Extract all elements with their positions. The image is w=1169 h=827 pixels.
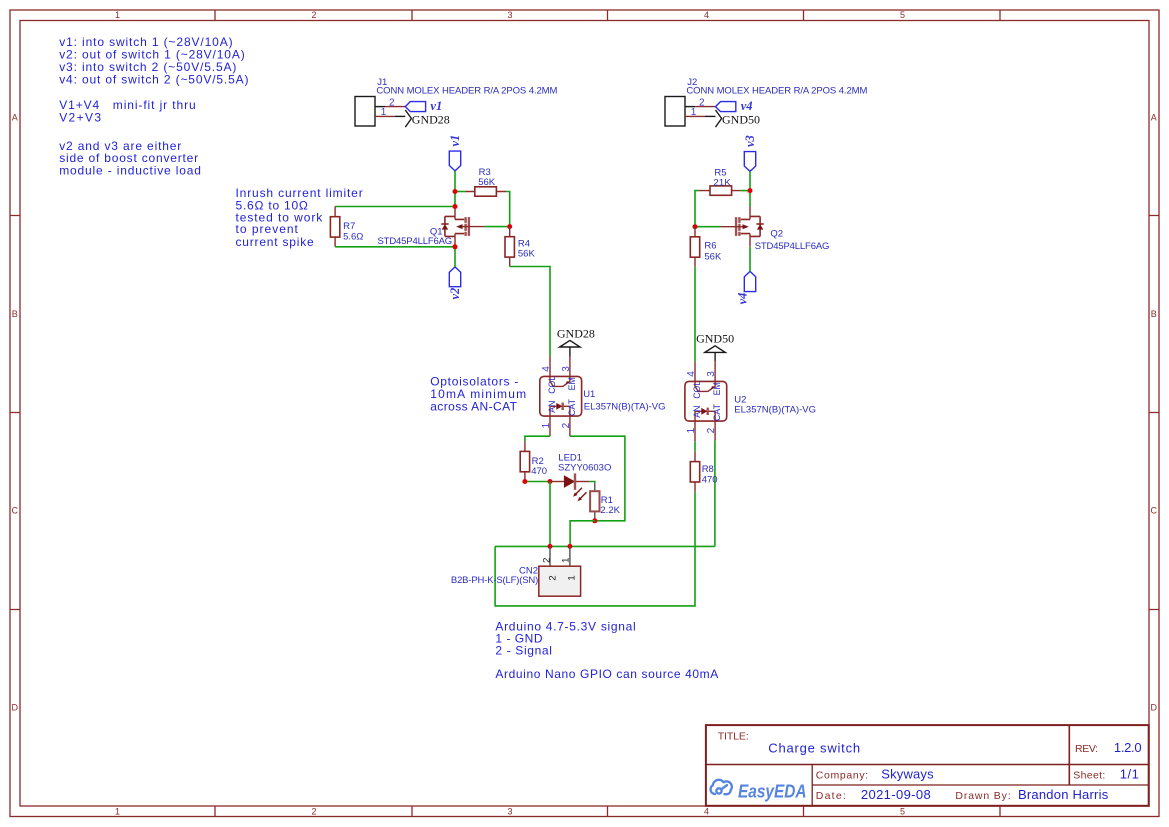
svg-text:56K: 56K: [518, 249, 536, 260]
svg-text:Arduino Nano GPIO can source 4: Arduino Nano GPIO can source 40mA: [495, 667, 718, 681]
wire R5 right lead to node: [741, 190, 750, 192]
svg-text:EM: EM: [712, 382, 722, 395]
svg-text:A: A: [12, 113, 18, 123]
svg-text:EasyEDA: EasyEDA: [738, 781, 807, 801]
U2 phototransistor: [695, 381, 715, 391]
svg-text:4: 4: [541, 366, 552, 372]
Q1 gate pin with arrow: [462, 226, 484, 228]
U1 pin 2: [569, 416, 571, 436]
svg-text:2: 2: [541, 558, 552, 563]
U1 phototransistor: [550, 376, 570, 386]
svg-text:CAT: CAT: [712, 403, 722, 421]
resistor R3: [466, 167, 506, 196]
svg-text:v4: out of switch 2 (~50V/5.5A: v4: out of switch 2 (~50V/5.5A): [59, 72, 248, 86]
wire bottom loop to R8: [495, 492, 695, 606]
svg-text:21K: 21K: [713, 178, 731, 189]
svg-text:4: 4: [704, 10, 709, 20]
wire U2 pin1 to R8 top: [694, 441, 696, 451]
junction CN2 pin2: [548, 544, 553, 549]
svg-text:2: 2: [389, 97, 395, 108]
optoisolator U1 EL357N(B)(TA)-VG: [540, 357, 666, 437]
wire Q2 drain to v4 flag: [749, 247, 751, 272]
U1 pin 3: [569, 357, 571, 377]
wire R4 bottom to U1 pin 4: [510, 267, 550, 357]
Q1 gate bar: [468, 217, 470, 236]
svg-text:1/1: 1/1: [1120, 766, 1139, 781]
svg-text:470: 470: [531, 466, 547, 477]
svg-text:v1: v1: [430, 99, 442, 113]
svg-text:Sheet:: Sheet:: [1073, 769, 1105, 781]
junction R2 bottom: [522, 479, 527, 484]
wire v1 flag to Q1 source node: [454, 171, 456, 207]
LED1 emission arrows: [573, 488, 586, 501]
svg-text:COL: COL: [547, 376, 557, 394]
connector CN2 B2B-PH-K-S(LF)(SN): [451, 546, 581, 596]
svg-text:GND50: GND50: [722, 112, 760, 126]
svg-text:Brandon Harris: Brandon Harris: [1018, 787, 1109, 802]
svg-text:B: B: [12, 309, 18, 319]
svg-text:v3: v3: [743, 135, 757, 147]
svg-text:EL357N(B)(TA)-VG: EL357N(B)(TA)-VG: [584, 401, 666, 412]
svg-text:GND28: GND28: [557, 327, 595, 341]
svg-text:5: 5: [900, 10, 905, 20]
svg-text:2.2K: 2.2K: [600, 505, 620, 516]
U2 pin 1: [694, 421, 696, 441]
svg-text:3: 3: [507, 807, 512, 817]
svg-text:STD45P4LLF6AG: STD45P4LLF6AG: [378, 236, 453, 247]
svg-text:3: 3: [561, 366, 572, 372]
svg-text:A: A: [1151, 113, 1157, 123]
J2 pin 1: [685, 107, 716, 118]
svg-text:1.2.0: 1.2.0: [1114, 740, 1142, 755]
svg-text:5.6Ω: 5.6Ω: [343, 231, 363, 242]
junction CN2 pin1: [567, 544, 572, 549]
U2 pin 3: [714, 361, 716, 381]
connector J1: [355, 77, 557, 126]
wire LED1 cathode to R1 top: [590, 482, 595, 484]
svg-text:56K: 56K: [478, 177, 496, 188]
wire U1 pin2 loop to R1 bottom node: [570, 436, 625, 521]
wire R3 right to Q1 gate node: [506, 192, 510, 227]
svg-text:v4: v4: [741, 99, 753, 113]
ground GND28 (at U1 pin 3): [557, 327, 595, 357]
junction R1 bottom: [592, 518, 597, 523]
svg-text:3: 3: [507, 10, 512, 20]
resistor R7: [330, 207, 363, 247]
junction node v1/R3: [453, 189, 458, 194]
svg-text:1: 1: [691, 107, 697, 118]
J1 pin 1: [375, 107, 405, 118]
svg-text:R6: R6: [704, 241, 716, 252]
net flag v1 (vertical, above R3 node): [448, 135, 462, 171]
svg-text:D: D: [12, 703, 19, 713]
Q2 gate pin with arrow: [720, 226, 742, 228]
ANNOTATION TEXTS: [59, 35, 718, 681]
svg-text:2: 2: [699, 97, 705, 108]
svg-text:D: D: [1151, 703, 1158, 713]
svg-text:Q2: Q2: [770, 228, 783, 239]
svg-text:2: 2: [311, 10, 316, 20]
U1 emitter diode: [550, 406, 570, 416]
svg-text:B: B: [1151, 309, 1157, 319]
wire U1 pin1 to R2 top: [525, 436, 550, 441]
svg-text:B2B-PH-K-S(LF)(SN): B2B-PH-K-S(LF)(SN): [451, 575, 538, 586]
svg-text:470: 470: [702, 475, 718, 486]
svg-text:Charge switch: Charge switch: [768, 740, 860, 755]
svg-text:56K: 56K: [704, 252, 722, 263]
svg-text:CONN MOLEX HEADER R/A 2POS 4.2: CONN MOLEX HEADER R/A 2POS 4.2MM: [376, 85, 557, 96]
Q2 channel bar: [738, 217, 740, 236]
wire gate node to Q1 gate pin: [485, 226, 510, 228]
junction v3 / R5 / Q2: [748, 188, 753, 193]
svg-text:Skyways: Skyways: [881, 766, 934, 781]
resistor R5: [699, 168, 741, 196]
net port GND28 (at J1 pin 1): [405, 110, 450, 127]
net flag v4 (at J2 pin 2): [716, 99, 753, 113]
svg-text:1: 1: [561, 558, 572, 563]
svg-text:COL: COL: [692, 381, 702, 399]
transistor Q2 STD45P4LLF6AG (P-MOSFET, mirrored): [720, 207, 829, 252]
wire R1 bottom node to CN2 pin1: [570, 521, 595, 547]
transistor Q1 STD45P4LLF6AG (P-MOSFET): [378, 207, 485, 247]
wire R2 bottom to LED1 anode node: [525, 481, 550, 483]
svg-text:2: 2: [547, 575, 558, 580]
U2 body: [685, 381, 727, 421]
svg-text:2021-09-08: 2021-09-08: [861, 787, 931, 802]
svg-text:across AN-CAT: across AN-CAT: [430, 399, 517, 413]
resistor R4: [505, 227, 535, 267]
svg-text:AN: AN: [692, 406, 702, 418]
svg-text:3: 3: [706, 371, 717, 377]
LED LED1 SZYY0603O: [550, 453, 611, 502]
svg-text:1: 1: [567, 575, 578, 580]
U2 emitter diode: [695, 411, 715, 421]
svg-text:4: 4: [686, 371, 697, 377]
wire Q1 drain node to v2 flag: [454, 247, 456, 267]
Q2 gate bar: [735, 217, 737, 236]
junction Q1 drain / R7 / v2: [453, 244, 458, 249]
Q2 body diode: [756, 223, 763, 225]
svg-text:2: 2: [706, 427, 717, 433]
resistor R6: [690, 227, 722, 267]
net flag v1 (at J1 pin 2): [405, 99, 442, 113]
J2 pin 2: [685, 97, 716, 108]
Q1 body diode: [441, 223, 448, 225]
wire gate node to Q2 gate pin: [695, 226, 720, 228]
svg-text:1: 1: [115, 807, 120, 817]
svg-text:C: C: [1151, 506, 1158, 516]
junction Q1 source / R7: [453, 204, 458, 209]
wire signal row: [495, 545, 715, 547]
net port GND50 (at J2 pin 1): [716, 110, 761, 127]
resistor R8: [690, 452, 717, 492]
svg-text:CAT: CAT: [567, 398, 577, 416]
svg-text:5: 5: [900, 807, 905, 817]
U1 body: [540, 376, 582, 416]
optoisolator U2 EL357N(B)(TA)-VG: [685, 361, 816, 441]
svg-text:V2+V3: V2+V3: [59, 111, 101, 125]
wire R7 bottom to Q1 drain node: [335, 246, 455, 248]
svg-text:4: 4: [704, 807, 709, 817]
wire Q1 source node to R7 top: [335, 206, 455, 208]
svg-text:1: 1: [541, 422, 552, 428]
ground GND50 (at U2 pin 3): [696, 332, 734, 362]
svg-text:Drawn By:: Drawn By:: [955, 790, 1010, 802]
svg-text:CONN MOLEX HEADER R/A 2POS 4.2: CONN MOLEX HEADER R/A 2POS 4.2MM: [686, 85, 867, 96]
svg-text:GND50: GND50: [696, 332, 734, 346]
U2 pin 4: [694, 361, 696, 381]
svg-text:1: 1: [686, 427, 697, 433]
svg-text:Date:: Date:: [816, 790, 846, 802]
J1 pin 2: [375, 97, 405, 108]
svg-text:STD45P4LLF6AG: STD45P4LLF6AG: [755, 241, 830, 252]
svg-text:EL357N(B)(TA)-VG: EL357N(B)(TA)-VG: [734, 405, 816, 416]
svg-text:v4: v4: [735, 293, 749, 305]
svg-text:1: 1: [115, 10, 120, 20]
TITLE BLOCK: [706, 725, 1149, 806]
U2 pin 2: [714, 421, 716, 440]
svg-text:1: 1: [381, 107, 387, 118]
junction gate / R3 / R4: [507, 224, 512, 229]
resistor R2: [520, 441, 547, 481]
wire R3 left lead to node: [455, 191, 466, 193]
svg-text:R7: R7: [343, 221, 355, 232]
wire LED anode node down to CN2 pin2: [549, 482, 551, 547]
net flag v2 (below Q1): [448, 267, 462, 300]
net flag v3 (above R5 node): [743, 135, 757, 171]
svg-text:2: 2: [311, 807, 316, 817]
svg-text:v1: v1: [448, 135, 462, 147]
svg-text:2 - Signal: 2 - Signal: [495, 643, 552, 657]
svg-text:Company:: Company:: [816, 769, 868, 781]
svg-text:REV:: REV:: [1075, 743, 1098, 755]
svg-text:TITLE:: TITLE:: [718, 730, 749, 742]
svg-text:2: 2: [561, 422, 572, 428]
svg-text:v2: v2: [448, 288, 462, 300]
junction LED1 anode / CN2 pin2 branch: [548, 479, 553, 484]
wire R6 bottom to U2 pin 4: [694, 267, 696, 362]
U1 pin 1: [549, 416, 551, 436]
resistor R1: [590, 483, 621, 521]
svg-text:U1: U1: [583, 389, 595, 400]
svg-text:current spike: current spike: [236, 235, 315, 249]
svg-text:AN: AN: [547, 401, 557, 413]
svg-text:C: C: [12, 506, 19, 516]
EasyEDA logo: [711, 780, 732, 794]
svg-text:GND28: GND28: [412, 112, 450, 126]
wire v3 flag to Q2 source node: [749, 171, 751, 206]
svg-text:module - inductive load: module - inductive load: [59, 164, 201, 178]
connector J2: [665, 77, 867, 126]
svg-text:SZYY0603O: SZYY0603O: [558, 463, 611, 474]
svg-text:EM: EM: [567, 377, 577, 390]
net flag v4 (below Q2): [735, 271, 755, 304]
Q1 channel bar: [464, 217, 466, 236]
wire U2 pin2 down to signal row: [714, 440, 716, 546]
wire R5 left to Q2 gate node: [695, 191, 699, 227]
junction R5 / R6 / gate: [693, 224, 698, 229]
U1 pin 4: [549, 357, 551, 377]
